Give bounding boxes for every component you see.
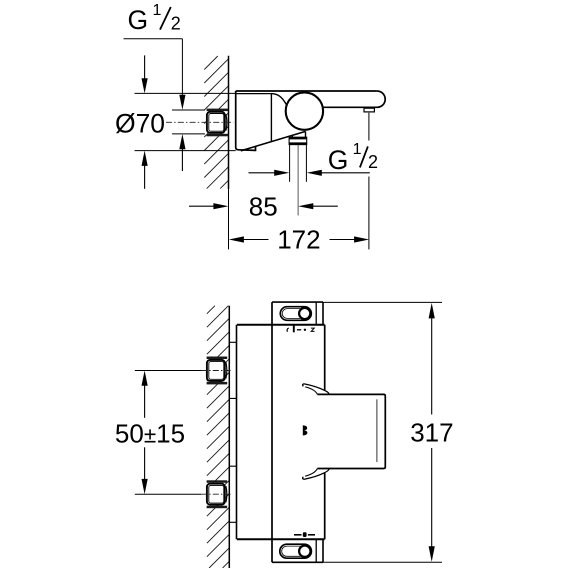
- S-union escutcheon ticks bottom nut: [229, 466, 236, 522]
- svg-text:85: 85: [249, 191, 278, 221]
- svg-text:317: 317: [410, 418, 453, 448]
- 317 ext line top: [323, 301, 442, 303]
- spout curl top: [303, 384, 330, 395]
- 50+-15 dim line with arrows: [142, 371, 148, 386]
- aerator / mousseur: [364, 108, 374, 112]
- 85 dim arrow to wall (right-pointing): [213, 203, 228, 209]
- leader line from G 1/2 top: [124, 39, 183, 97]
- body top edge: [237, 324, 325, 326]
- phi70 dim arrow top (down): [144, 55, 146, 80]
- wall line (bottom drawing): [228, 306, 230, 568]
- svg-text:1: 1: [353, 141, 362, 158]
- slant bottom line of body: [241, 131, 306, 150]
- spout curl bottom: [303, 469, 330, 480]
- S-union escutcheon ticks top nut: [229, 342, 236, 398]
- 85 dim arrow at centerline (left-pointing): [298, 203, 313, 209]
- wall hatch (top drawing): [204, 56, 228, 189]
- bottom cap divider: [315, 539, 317, 562]
- bottom handle pill: [280, 544, 312, 558]
- small logo mark on body: [303, 425, 308, 435]
- 317 ext line bottom: [323, 561, 442, 563]
- outlet ext line left: [289, 145, 291, 182]
- S-curve escutcheon to knob: [271, 94, 286, 105]
- shower outlet block: [289, 137, 307, 144]
- svg-text:Ø70: Ø70: [115, 109, 165, 139]
- union nut bottom (bottom drawing): [207, 480, 228, 483]
- bottom handle knob circle: [299, 546, 310, 557]
- top handle pill: [280, 307, 311, 321]
- centerline through nut: [166, 121, 234, 123]
- escutcheon body (trapezoid): [236, 91, 256, 150]
- nut dim arrow up: [181, 148, 183, 171]
- dim ext line phi70 bottom: [135, 150, 236, 152]
- body left visible edge: [271, 302, 273, 562]
- outlet neck below knob: [292, 131, 305, 137]
- spout inner edge line: [376, 399, 378, 462]
- 172 dim arrow left (left-pointing at wall): [229, 236, 244, 242]
- 172 dim arrow right (right-pointing): [354, 236, 369, 242]
- svg-text:1: 1: [153, 2, 162, 19]
- dim ext line phi70 top: [135, 92, 236, 94]
- top handle knob circle: [299, 308, 310, 319]
- nut ext line top: [172, 109, 205, 111]
- svg-text:2: 2: [171, 14, 181, 34]
- body front edge upper segment: [324, 325, 326, 391]
- top cap box: [272, 302, 323, 325]
- spout bump outline: [317, 394, 385, 468]
- union nut top (bottom drawing): [207, 357, 228, 360]
- 50+-15 ext line bottom (solid then dash-dot): [135, 493, 201, 495]
- escutcheon top inner line: [236, 93, 272, 95]
- svg-text:2: 2: [368, 152, 378, 172]
- body front edge lower segment: [324, 473, 326, 539]
- spout/lever top line: [236, 90, 377, 92]
- outlet centerline ext: [297, 145, 299, 216]
- union nut (top drawing): [207, 109, 229, 112]
- wall hatch (bottom drawing): [207, 306, 229, 568]
- 317 dim line with arrows: [429, 303, 435, 319]
- thermostat knob circle: [286, 92, 323, 129]
- mounting plate left edge: [236, 325, 238, 540]
- phi70 dim arrow bottom (up): [144, 165, 146, 189]
- bottom cap box: [272, 539, 323, 562]
- 85 dim line left part: [189, 205, 215, 207]
- svg-text:G: G: [128, 5, 149, 35]
- svg-text:172: 172: [277, 225, 320, 255]
- wall extension line down to 172 dimension: [228, 189, 230, 249]
- aerator ext line: [368, 113, 370, 250]
- nut ext line bottom: [172, 133, 205, 135]
- 50+-15 ext line top (solid then dash-dot): [135, 370, 201, 372]
- nut dim arrow down: [179, 95, 185, 110]
- escutcheon right edge: [270, 94, 272, 142]
- outlet ext line right: [305, 145, 307, 182]
- body bottom edge: [237, 538, 325, 540]
- svg-text:G: G: [328, 145, 349, 175]
- top cap divider: [315, 302, 317, 325]
- wall line (top drawing): [228, 56, 230, 189]
- temperature marking icons below top cap: [287, 328, 289, 332]
- marking icon above bottom cap: [294, 534, 302, 536]
- G1/2 outlet dim arrows: [249, 172, 277, 174]
- svg-text:50±15: 50±15: [115, 419, 185, 449]
- spout right end cap: [323, 91, 386, 107]
